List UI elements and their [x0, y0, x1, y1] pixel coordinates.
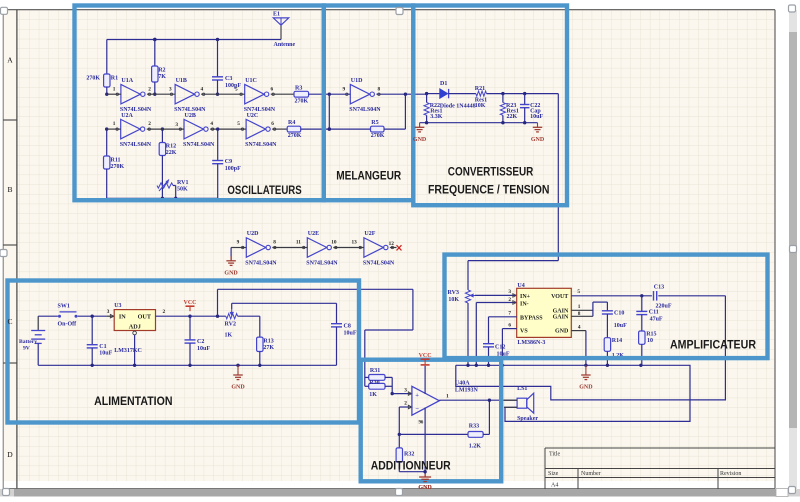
svg-text:4: 4: [210, 121, 213, 127]
svg-text:11: 11: [296, 240, 301, 246]
svg-text:C2: C2: [197, 339, 204, 345]
svg-text:IN-: IN-: [520, 301, 529, 307]
svg-text:3.3K: 3.3K: [430, 114, 443, 120]
svg-text:4: 4: [578, 324, 581, 330]
svg-text:VOUT: VOUT: [551, 294, 568, 300]
svg-text:C8: C8: [344, 323, 351, 329]
svg-text:3: 3: [169, 86, 172, 92]
svg-text:U1C: U1C: [245, 78, 257, 84]
svg-text:2: 2: [148, 121, 151, 127]
svg-text:VCC: VCC: [184, 300, 197, 306]
svg-text:5: 5: [577, 289, 580, 295]
svg-text:SN74LS04N: SN74LS04N: [183, 142, 215, 148]
svg-text:R32: R32: [404, 452, 414, 458]
svg-text:LM193N: LM193N: [455, 387, 479, 393]
svg-text:Size: Size: [548, 471, 559, 477]
svg-text:GAIN: GAIN: [553, 315, 569, 321]
svg-text:CONVERTISSEUR: CONVERTISSEUR: [448, 167, 534, 179]
svg-text:GND: GND: [555, 329, 569, 335]
svg-text:8: 8: [273, 240, 276, 246]
svg-text:C3: C3: [225, 76, 232, 82]
svg-text:U4: U4: [517, 283, 524, 289]
svg-text:SW1: SW1: [58, 303, 70, 309]
svg-text:E1: E1: [273, 12, 280, 18]
svg-text:R14: R14: [612, 338, 622, 344]
svg-text:U2A: U2A: [121, 113, 133, 119]
svg-text:8: 8: [578, 311, 581, 317]
svg-text:U1D: U1D: [351, 78, 363, 84]
svg-text:U1B: U1B: [176, 78, 187, 84]
svg-text:10K: 10K: [475, 103, 486, 109]
svg-text:100pF: 100pF: [225, 166, 241, 172]
svg-text:Revision: Revision: [720, 471, 741, 477]
svg-text:SN74LS04N: SN74LS04N: [306, 260, 338, 266]
svg-text:10: 10: [647, 338, 653, 344]
svg-text:6: 6: [271, 121, 274, 127]
svg-text:Number: Number: [581, 471, 601, 477]
svg-text:R5: R5: [371, 120, 378, 126]
svg-text:VS: VS: [520, 329, 528, 335]
svg-text:GND: GND: [231, 385, 245, 391]
svg-text:10uF: 10uF: [530, 114, 543, 120]
svg-text:1K: 1K: [369, 392, 377, 398]
svg-text:R31: R31: [370, 368, 380, 374]
svg-text:22K: 22K: [166, 150, 177, 156]
svg-text:SN74LS04N: SN74LS04N: [245, 142, 277, 148]
svg-text:RV1: RV1: [177, 180, 188, 186]
svg-text:1: 1: [446, 394, 449, 400]
svg-text:ALIMENTATION: ALIMENTATION: [94, 396, 172, 408]
svg-text:D1: D1: [440, 81, 447, 87]
svg-text:OUT: OUT: [138, 314, 152, 321]
svg-text:C10: C10: [614, 311, 624, 317]
svg-text:9V: 9V: [23, 346, 30, 352]
svg-text:R1: R1: [111, 76, 118, 82]
svg-text:270K: 270K: [111, 164, 125, 170]
svg-text:GND: GND: [224, 271, 238, 277]
svg-text:3: 3: [175, 122, 178, 128]
svg-text:270K: 270K: [295, 99, 309, 105]
svg-text:R33: R33: [469, 423, 479, 429]
svg-text:R13: R13: [263, 339, 273, 345]
svg-text:C11: C11: [649, 310, 659, 316]
svg-text:2: 2: [163, 309, 166, 315]
svg-text:U2C: U2C: [247, 113, 259, 119]
svg-text:LM386N-3: LM386N-3: [517, 340, 545, 346]
svg-text:RV2: RV2: [225, 321, 236, 327]
svg-text:47uF: 47uF: [650, 317, 663, 323]
svg-text:R4: R4: [288, 120, 295, 126]
svg-text:8: 8: [378, 86, 381, 92]
svg-text:Battery: Battery: [19, 339, 37, 345]
svg-text:VCC: VCC: [419, 353, 432, 359]
svg-text:C: C: [7, 317, 12, 326]
svg-text:GAIN: GAIN: [553, 308, 569, 314]
svg-text:7K: 7K: [158, 74, 166, 80]
svg-text:FREQUENCE / TENSION: FREQUENCE / TENSION: [428, 184, 550, 196]
svg-text:SN74LS04N: SN74LS04N: [245, 260, 277, 266]
svg-text:100pF: 100pF: [225, 83, 241, 89]
svg-text:6: 6: [508, 322, 511, 328]
svg-text:Diode 1N4448: Diode 1N4448: [440, 104, 476, 110]
svg-text:IN+: IN+: [520, 294, 531, 300]
svg-text:2: 2: [404, 401, 407, 407]
svg-text:12: 12: [389, 241, 395, 247]
svg-text:Speaker: Speaker: [517, 416, 538, 422]
svg-text:−: −: [415, 406, 419, 413]
svg-text:A4: A4: [551, 483, 558, 489]
svg-text:BYPASS: BYPASS: [520, 315, 543, 321]
svg-text:7: 7: [508, 311, 511, 317]
svg-text:R12: R12: [166, 144, 176, 150]
svg-text:D: D: [7, 450, 13, 459]
svg-text:9: 9: [343, 86, 346, 92]
svg-text:B: B: [7, 185, 12, 194]
svg-text:R3: R3: [295, 86, 302, 92]
svg-text:10K: 10K: [448, 297, 459, 303]
svg-text:AMPLIFICATEUR: AMPLIFICATEUR: [670, 340, 757, 352]
svg-text:GND: GND: [531, 137, 545, 143]
svg-text:2: 2: [508, 297, 511, 303]
svg-text:Title: Title: [549, 451, 560, 457]
svg-text:27K: 27K: [263, 345, 274, 351]
svg-text:10uF: 10uF: [197, 346, 210, 352]
svg-text:10uF: 10uF: [99, 351, 112, 357]
svg-text:ADDITIONNEUR: ADDITIONNEUR: [371, 460, 452, 472]
svg-text:270K: 270K: [288, 133, 302, 139]
svg-text:LS1: LS1: [517, 386, 527, 392]
svg-text:U2E: U2E: [308, 231, 319, 237]
svg-text:ADJ: ADJ: [129, 324, 141, 331]
svg-text:10uF: 10uF: [344, 330, 357, 336]
svg-text:GND: GND: [413, 137, 427, 143]
svg-text:270K: 270K: [371, 133, 385, 139]
svg-text:22K: 22K: [507, 114, 518, 120]
svg-text:96: 96: [419, 420, 424, 425]
svg-text:9: 9: [237, 240, 240, 246]
svg-text:SN74LS04N: SN74LS04N: [120, 142, 152, 148]
svg-text:MELANGEUR: MELANGEUR: [336, 170, 402, 182]
svg-text:RV3: RV3: [448, 290, 459, 296]
svg-text:270K: 270K: [86, 76, 100, 82]
svg-text:1: 1: [113, 86, 116, 92]
svg-text:On-Off: On-Off: [58, 321, 78, 327]
svg-text:C9: C9: [225, 159, 232, 165]
svg-text:R11: R11: [111, 158, 121, 164]
svg-text:2: 2: [148, 86, 151, 92]
svg-text:U1A: U1A: [121, 78, 133, 84]
svg-text:R2: R2: [158, 68, 165, 74]
svg-text:3: 3: [404, 387, 407, 393]
svg-text:50K: 50K: [177, 187, 188, 193]
svg-text:OSCILLATEURS: OSCILLATEURS: [227, 185, 302, 197]
svg-text:4: 4: [201, 86, 204, 92]
svg-text:6: 6: [271, 86, 274, 92]
svg-text:U40A: U40A: [455, 380, 470, 386]
svg-text:R21: R21: [475, 86, 485, 92]
svg-text:R30: R30: [369, 380, 379, 386]
svg-text:SN74LS04N: SN74LS04N: [349, 107, 381, 113]
svg-text:C13: C13: [654, 284, 664, 290]
svg-text:R15: R15: [646, 331, 656, 337]
svg-text:U2D: U2D: [247, 231, 259, 237]
svg-text:Antenne: Antenne: [274, 42, 296, 48]
svg-text:3: 3: [508, 289, 511, 295]
svg-text:1.2K: 1.2K: [469, 443, 482, 449]
svg-text:U3: U3: [114, 303, 121, 309]
svg-text:3: 3: [107, 309, 110, 315]
svg-text:GND: GND: [418, 485, 432, 491]
svg-text:5: 5: [237, 121, 240, 127]
svg-text:+: +: [415, 392, 419, 399]
svg-text:IN: IN: [119, 314, 126, 321]
svg-text:10: 10: [331, 240, 337, 246]
svg-text:1: 1: [113, 121, 116, 127]
svg-text:1K: 1K: [225, 333, 233, 339]
svg-text:5: 5: [235, 86, 238, 92]
svg-text:10uF: 10uF: [614, 323, 627, 329]
svg-text:GND: GND: [579, 385, 593, 391]
svg-text:U2F: U2F: [364, 231, 375, 237]
svg-text:A: A: [7, 56, 13, 65]
svg-text:C1: C1: [99, 344, 106, 350]
svg-text:13: 13: [352, 240, 358, 246]
svg-text:1: 1: [578, 304, 581, 310]
svg-text:SN74LS04N: SN74LS04N: [363, 260, 395, 266]
svg-text:C12: C12: [495, 344, 505, 350]
svg-text:LM317KC: LM317KC: [114, 348, 142, 354]
svg-text:U2B: U2B: [185, 113, 196, 119]
